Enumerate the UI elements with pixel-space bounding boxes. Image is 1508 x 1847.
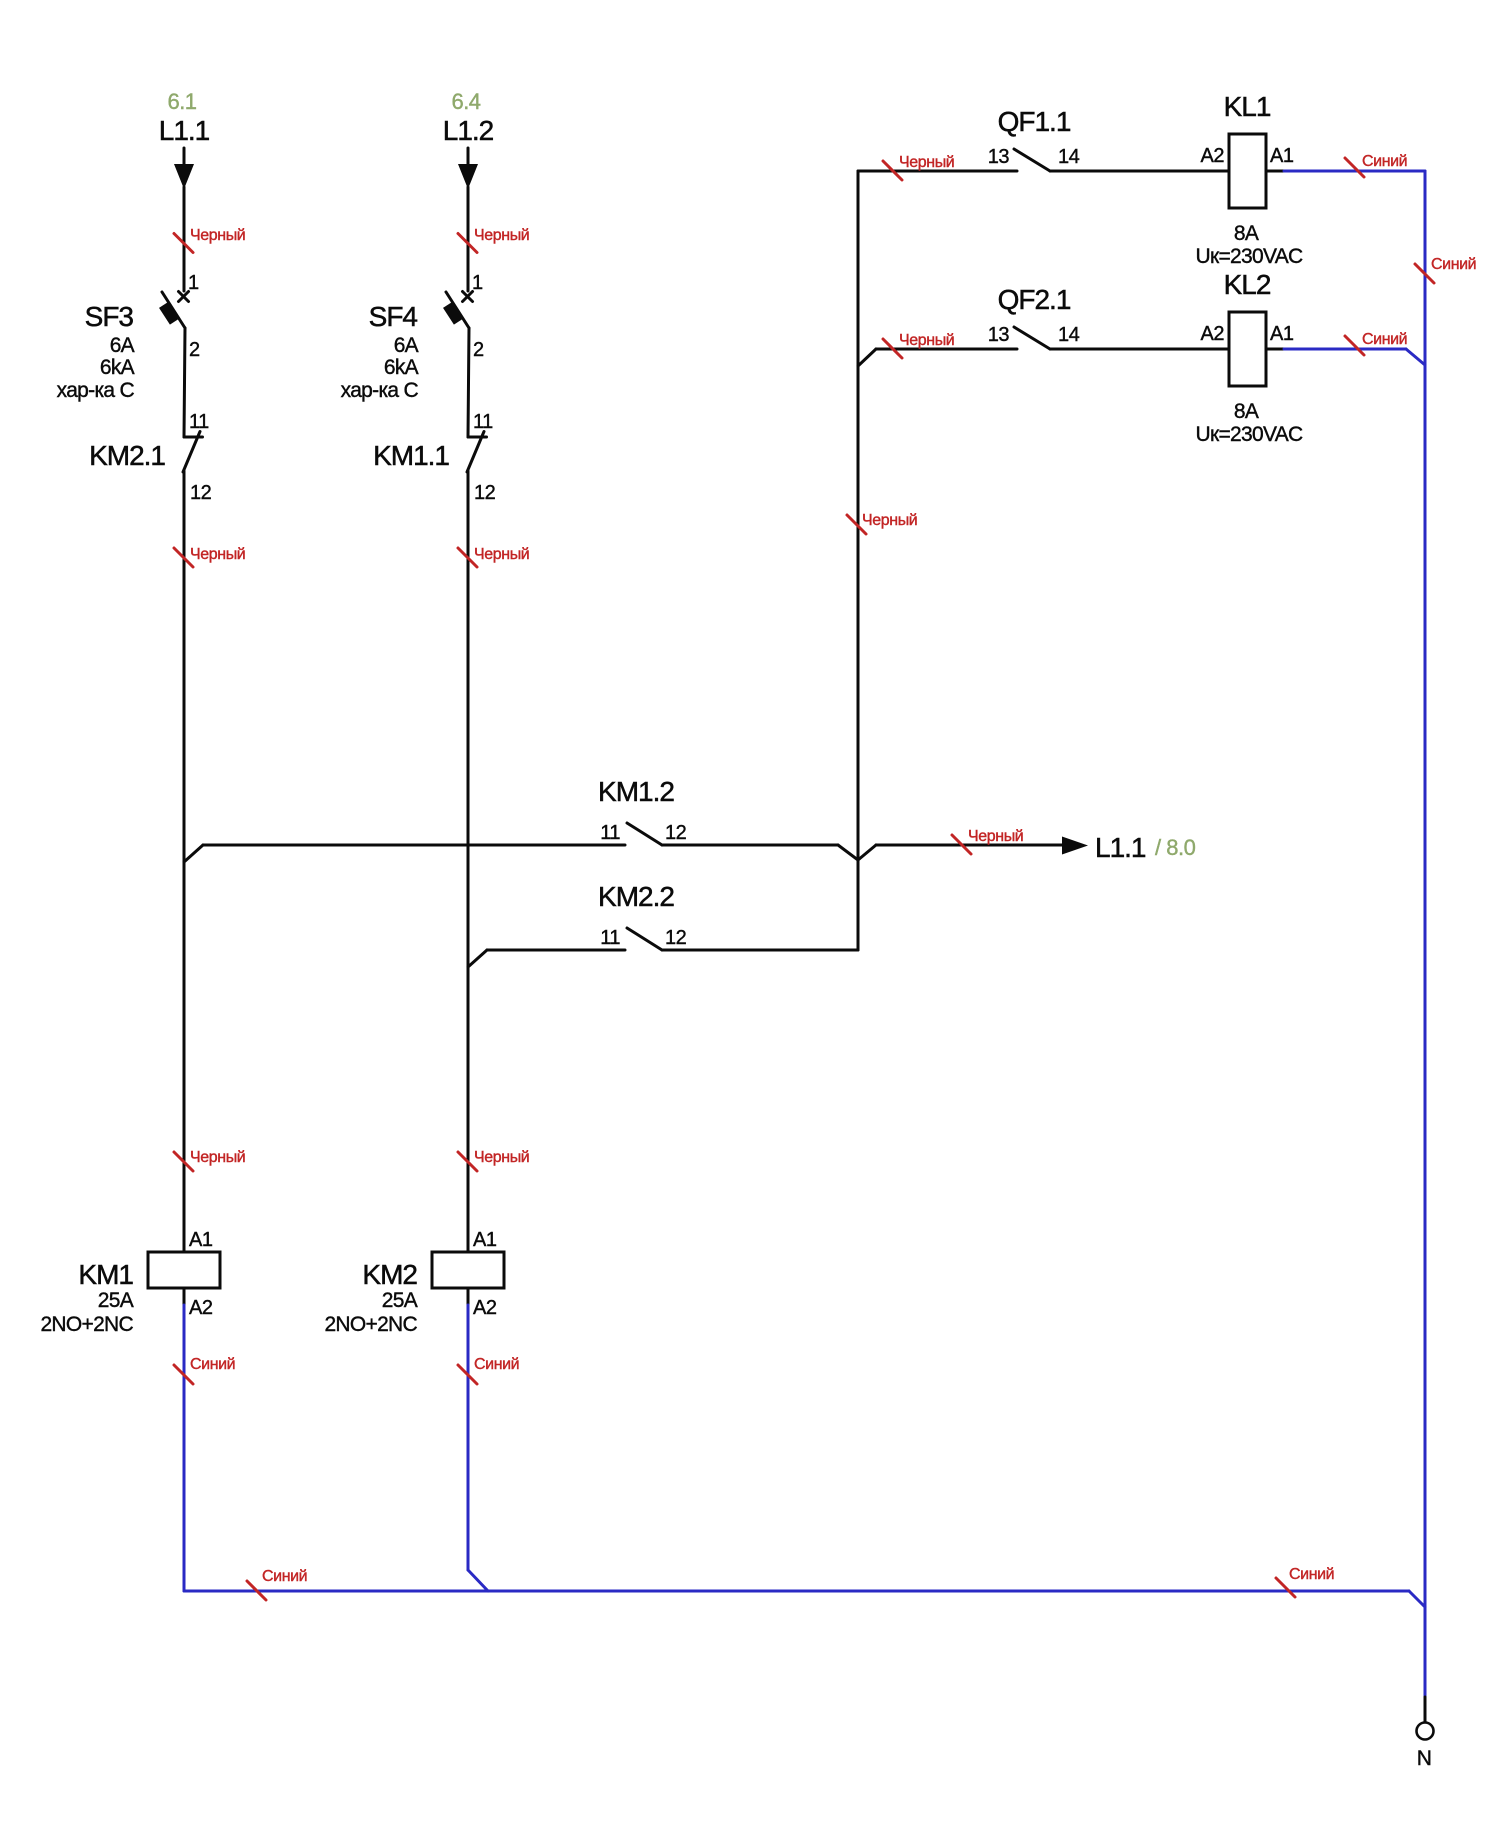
svg-text:11: 11: [600, 927, 620, 949]
svg-text:N: N: [1417, 1747, 1431, 1770]
wire SF4 pin2 to KM1.1 pin11: [468, 328, 469, 437]
wire label Черный (branch2 top): [458, 227, 529, 253]
contact QF1.1 (NO): [1014, 149, 1050, 171]
wire vertical black bus: [857, 171, 860, 950]
svg-text:Синий: Синий: [1362, 331, 1407, 348]
svg-text:A1: A1: [1270, 145, 1294, 167]
wire bus to QF2.1: [876, 348, 1017, 351]
junction black bus to QF2.1 row: [858, 349, 876, 366]
wire label Черный (branch1 lower): [174, 1149, 245, 1171]
svg-text:11: 11: [600, 822, 620, 844]
junction V at bus (KM1.2 row): [838, 845, 876, 860]
junction branch2 to KM2.2 row: [468, 950, 487, 967]
wire KM1.2 pin12 to bus: [662, 844, 838, 847]
wire KL1 A1 to right bus (blue): [1266, 170, 1285, 173]
svg-text:Синий: Синий: [1362, 153, 1407, 170]
svg-text:Черный: Черный: [190, 546, 245, 563]
svg-text:A2: A2: [189, 1297, 213, 1319]
svg-text:хар-ка С: хар-ка С: [341, 379, 419, 402]
svg-text:KM1: KM1: [78, 1259, 133, 1290]
svg-text:14: 14: [1058, 324, 1080, 346]
wire label Черный (exit row): [952, 828, 1023, 854]
svg-text:L1.2: L1.2: [443, 115, 494, 146]
junction branch1 to KM1.2 row: [184, 845, 203, 862]
wire L1.2 arrow to SF4 pin1: [467, 187, 470, 291]
source arrow L1.2: [458, 148, 478, 189]
svg-text:A2: A2: [1201, 323, 1225, 345]
wire KM2.2 pin12 to bus: [662, 949, 858, 952]
svg-text:2NO+2NC: 2NO+2NC: [324, 1313, 417, 1336]
wire right blue bus vertical: [1424, 171, 1427, 1697]
wire label Синий (KL2 row): [1345, 331, 1407, 355]
svg-text:6A: 6A: [394, 334, 419, 357]
svg-text:Синий: Синий: [474, 1356, 519, 1373]
wire label Черный (QF1.1 row): [883, 154, 954, 180]
svg-text:L1.1: L1.1: [1095, 832, 1146, 863]
contact KM1.2 (NO): [627, 823, 662, 845]
svg-text:L1.1: L1.1: [159, 115, 210, 146]
svg-text:Черный: Черный: [474, 1149, 529, 1166]
wire label Черный (branch1 mid): [174, 546, 245, 567]
coil KL1: [1229, 134, 1266, 208]
svg-text:KM2.2: KM2.2: [598, 881, 674, 912]
svg-text:11: 11: [189, 411, 209, 433]
wire label Черный (branch2 lower): [458, 1149, 529, 1171]
wire label Синий (branch1): [174, 1356, 235, 1384]
svg-text:Uк=230VAC: Uк=230VAC: [1196, 423, 1304, 446]
coil KM2: [432, 1252, 504, 1288]
wire KM2 A2 down (blue): [467, 1288, 470, 1306]
svg-text:Синий: Синий: [262, 1568, 307, 1585]
svg-text:хар-ка С: хар-ка С: [57, 379, 135, 402]
svg-text:8A: 8A: [1234, 222, 1259, 245]
svg-text:Синий: Синий: [190, 1356, 235, 1373]
svg-text:14: 14: [1058, 146, 1080, 168]
svg-text:2NO+2NC: 2NO+2NC: [40, 1313, 133, 1336]
svg-text:SF4: SF4: [369, 301, 418, 332]
svg-text:A1: A1: [1270, 323, 1294, 345]
svg-text:KL1: KL1: [1224, 91, 1271, 122]
svg-text:Черный: Черный: [899, 332, 954, 349]
svg-text:12: 12: [190, 482, 212, 504]
svg-text:6A: 6A: [110, 334, 135, 357]
wire label Черный (black bus): [847, 512, 917, 534]
svg-text:6.4: 6.4: [451, 89, 480, 114]
wire bottom blue bus: [184, 1590, 1409, 1593]
svg-text:2: 2: [189, 339, 200, 361]
svg-text:6kA: 6kA: [100, 356, 135, 379]
svg-text:/ 8.0: / 8.0: [1155, 835, 1196, 860]
wire label Синий (bottom bus left): [247, 1568, 307, 1600]
svg-text:KM2: KM2: [362, 1259, 417, 1290]
svg-text:Синий: Синий: [1289, 1566, 1334, 1583]
wire KM2.1 pin12 down to KM1 coil A1: [183, 471, 186, 1252]
wire label Синий (bottom bus right): [1276, 1566, 1334, 1597]
contact KM2.2 (NO): [627, 928, 662, 950]
wire SF3 pin2 to KM2.1 pin11: [184, 328, 185, 437]
svg-text:KM2.1: KM2.1: [89, 440, 165, 471]
terminal N: [1417, 1723, 1434, 1740]
svg-text:6kA: 6kA: [384, 356, 419, 379]
contact QF2.1 (NO): [1014, 327, 1050, 349]
contact KM2.1 (NC): [183, 432, 203, 473]
svg-text:KM1.1: KM1.1: [373, 440, 449, 471]
wire KM1.1 pin12 down to KM2 coil A1: [467, 471, 470, 1252]
svg-text:12: 12: [665, 927, 687, 949]
wire branch2 to KM2.2 pin11: [487, 949, 625, 952]
junction bottom bus to right bus: [1409, 1591, 1425, 1607]
wire bus to QF1.1: [858, 170, 1017, 173]
wire label Черный (QF2.1 row): [883, 332, 954, 358]
breaker SF3: [159, 292, 188, 329]
svg-text:KL2: KL2: [1224, 269, 1271, 300]
svg-text:8A: 8A: [1234, 400, 1259, 423]
wire label Синий (KL1 row): [1345, 153, 1407, 177]
breaker SF4: [443, 292, 472, 329]
svg-text:25A: 25A: [382, 1289, 418, 1312]
svg-text:Черный: Черный: [190, 227, 245, 244]
svg-text:Черный: Черный: [474, 546, 529, 563]
wire branch1 to KM1.2 pin11: [203, 844, 625, 847]
svg-text:A2: A2: [1201, 145, 1225, 167]
wire bus to L1.1 exit arrow: [876, 844, 1064, 847]
svg-text:A2: A2: [473, 1297, 497, 1319]
coil KM1: [148, 1252, 220, 1288]
wire KM1 A2 down (blue): [183, 1288, 186, 1306]
wire stub to terminal N: [1424, 1697, 1427, 1722]
svg-text:11: 11: [473, 411, 493, 433]
wire label Черный (branch1 top): [174, 227, 245, 253]
svg-text:KM1.2: KM1.2: [598, 776, 674, 807]
exit arrow to L1.1 / 8.0: [1062, 837, 1088, 855]
wire label Синий (branch2): [458, 1356, 519, 1384]
svg-text:12: 12: [474, 482, 496, 504]
source arrow L1.1: [174, 148, 194, 189]
wire KL2 A1 to right bus (blue): [1266, 349, 1425, 365]
wire QF2.1 to KL2 A2: [1050, 348, 1229, 351]
svg-text:Черный: Черный: [968, 828, 1023, 845]
svg-text:12: 12: [665, 822, 687, 844]
svg-text:Черный: Черный: [899, 154, 954, 171]
svg-text:A1: A1: [473, 1229, 497, 1251]
junction KM2 blue drop to bottom bus: [468, 1570, 488, 1591]
svg-text:2: 2: [473, 339, 484, 361]
coil KL2: [1229, 312, 1266, 386]
wire QF1.1 to KL1 A2: [1050, 170, 1229, 173]
svg-text:13: 13: [988, 146, 1010, 168]
svg-text:25A: 25A: [98, 1289, 134, 1312]
svg-text:Черный: Черный: [190, 1149, 245, 1166]
svg-text:QF2.1: QF2.1: [998, 284, 1071, 315]
wire label Черный (branch2 mid): [458, 546, 529, 567]
svg-text:Черный: Черный: [474, 227, 529, 244]
svg-text:SF3: SF3: [85, 301, 134, 332]
svg-text:A1: A1: [189, 1229, 213, 1251]
contact KM1.1 (NC): [467, 432, 487, 473]
wire L1.1 arrow to SF3 pin1: [183, 187, 186, 291]
svg-text:6.1: 6.1: [167, 89, 196, 114]
svg-text:Uк=230VAC: Uк=230VAC: [1196, 245, 1304, 268]
svg-text:13: 13: [988, 324, 1010, 346]
svg-text:QF1.1: QF1.1: [998, 106, 1071, 137]
svg-text:Черный: Черный: [862, 512, 917, 529]
svg-text:Синий: Синий: [1431, 256, 1476, 273]
wire label Синий (right bus): [1415, 256, 1476, 283]
